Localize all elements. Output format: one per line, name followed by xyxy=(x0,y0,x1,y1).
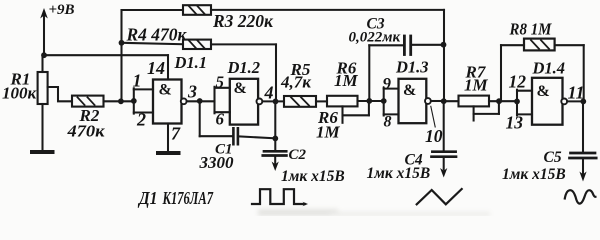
capacitor C4 xyxy=(432,101,457,177)
svg-text:3: 3 xyxy=(187,82,197,102)
svg-text:&: & xyxy=(537,83,550,100)
output bubble D1.1 xyxy=(181,98,187,104)
svg-text:&: & xyxy=(403,82,416,99)
wire D1.4 out xyxy=(567,100,584,102)
wire +9V rail xyxy=(44,54,168,56)
resistor R1 xyxy=(38,55,48,150)
wire pin14 drop xyxy=(167,55,169,79)
svg-text:2: 2 xyxy=(136,110,146,130)
svg-text:1М: 1М xyxy=(464,76,489,95)
svg-text:R8 1М: R8 1М xyxy=(509,19,553,38)
sine wave symbol xyxy=(565,190,596,203)
pin 10 leader xyxy=(431,106,435,127)
triangle wave symbol xyxy=(417,189,462,204)
svg-text:R4 470к: R4 470к xyxy=(126,24,188,44)
output bubble D1.2 xyxy=(257,99,263,105)
svg-text:7: 7 xyxy=(171,124,181,144)
svg-text:4,7к: 4,7к xyxy=(280,73,311,92)
resistor R7 xyxy=(444,96,517,107)
resistor R4 xyxy=(122,40,277,102)
node C3 right junction xyxy=(441,42,447,48)
resistor R8 xyxy=(501,39,584,102)
svg-text:3300: 3300 xyxy=(199,153,235,172)
svg-text:100к: 100к xyxy=(2,84,37,103)
wire feedback vertical right xyxy=(443,10,445,102)
node R6-C3 junction xyxy=(366,98,372,104)
capacitor C5 xyxy=(570,101,597,181)
svg-text:+9В: +9В xyxy=(49,2,75,18)
svg-text:&: & xyxy=(234,80,247,97)
node R7-R8 junction xyxy=(496,98,502,104)
node R2-feedback junction xyxy=(118,98,124,104)
svg-text:8: 8 xyxy=(384,114,392,131)
wire pin 7 to ground xyxy=(167,124,169,152)
wire R6 wiper tap xyxy=(343,101,369,123)
wire R2 to D1.1 input xyxy=(104,100,136,102)
wire R1 wiper tap xyxy=(48,87,72,101)
svg-text:Д1: Д1 xyxy=(137,188,157,208)
power +9V arrow xyxy=(40,8,48,55)
svg-text:К176ЛА7: К176ЛА7 xyxy=(162,188,214,208)
svg-text:1М: 1М xyxy=(316,123,341,142)
wire feedback vertical xyxy=(120,10,122,101)
svg-text:1М: 1М xyxy=(334,71,359,90)
svg-text:1: 1 xyxy=(133,71,142,91)
wire R7 wiper tap xyxy=(474,101,499,120)
svg-text:470к: 470к xyxy=(66,121,104,140)
svg-text:4: 4 xyxy=(264,83,274,103)
svg-text:D1.3: D1.3 xyxy=(395,58,429,77)
svg-text:С2: С2 xyxy=(289,147,307,163)
node D1.4 out junction xyxy=(580,99,586,105)
output bubble D1.4 xyxy=(561,99,567,105)
svg-text:12: 12 xyxy=(509,72,527,92)
svg-text:D1.4: D1.4 xyxy=(532,58,566,77)
svg-text:0,022мк: 0,022мк xyxy=(349,30,401,46)
svg-text:9: 9 xyxy=(383,74,392,93)
node D1.3 out junction xyxy=(441,98,447,104)
NAND gate D1.2 xyxy=(215,79,259,125)
svg-text:6: 6 xyxy=(216,110,225,129)
wire D1.2 out xyxy=(263,100,285,102)
op-amp U1 / NAND gate D1.1 xyxy=(134,80,182,124)
ground (pin 7) xyxy=(158,151,179,155)
square wave symbol xyxy=(252,189,308,206)
resistor R3 xyxy=(122,5,445,15)
scan shading bottom xyxy=(258,209,490,216)
resistor R2 xyxy=(72,96,104,107)
svg-text:13: 13 xyxy=(506,113,524,133)
svg-text:D1.2: D1.2 xyxy=(227,58,261,77)
svg-text:14: 14 xyxy=(147,58,165,78)
node R4 tee xyxy=(119,40,125,46)
svg-text:5: 5 xyxy=(216,73,225,92)
svg-text:С5: С5 xyxy=(544,149,562,166)
resistor R6 xyxy=(327,96,384,107)
resistor R5 xyxy=(284,96,327,107)
svg-text:R3 220к: R3 220к xyxy=(212,11,274,31)
capacitor C1 xyxy=(200,101,276,144)
svg-text:1мк х15В: 1мк х15В xyxy=(502,166,566,183)
NAND gate D1.4 xyxy=(517,78,563,125)
node rail-R1 junction xyxy=(41,52,47,58)
node D1.3 input xyxy=(381,98,387,104)
node D1.1 input xyxy=(131,98,137,104)
svg-text:&: & xyxy=(159,82,172,99)
wire D1.1 out xyxy=(187,100,215,102)
capacitor C3 xyxy=(369,36,443,101)
svg-text:1мк х15В: 1мк х15В xyxy=(281,168,345,185)
ground (R1) xyxy=(32,150,53,154)
svg-text:1мк х15В: 1мк х15В xyxy=(367,165,431,182)
node C1 tap xyxy=(197,98,203,104)
wire D1.3 out xyxy=(431,100,444,102)
capacitor C2 xyxy=(263,101,287,171)
svg-text:10: 10 xyxy=(425,126,443,146)
node D1.4 input xyxy=(514,99,520,105)
node D1.2 out junction xyxy=(273,99,279,105)
svg-text:D1.1: D1.1 xyxy=(174,53,208,72)
NAND gate D1.3 xyxy=(384,79,427,123)
output bubble D1.3 xyxy=(425,98,431,104)
